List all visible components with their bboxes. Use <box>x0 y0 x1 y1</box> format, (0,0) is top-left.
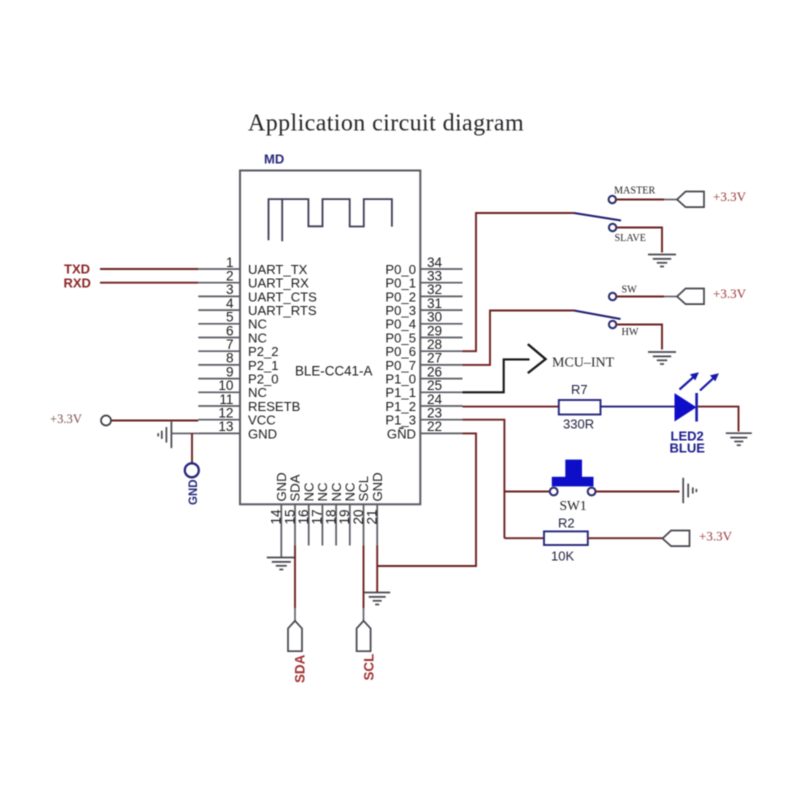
pin 30 P0_4 stub <box>385 310 462 332</box>
wire LED2 to ground <box>698 407 739 432</box>
wire R2 to +3.3V plug <box>588 537 663 539</box>
pin 9 P2_0 stub <box>198 364 278 386</box>
svg-text:SW: SW <box>622 285 638 296</box>
pushbutton SW1 actuator <box>552 460 594 487</box>
connector SDA <box>288 621 302 651</box>
wire SW1 to ground <box>596 491 680 493</box>
pin 24 P1_2 stub <box>385 392 462 414</box>
pin 7 P2_2 stub <box>198 337 278 359</box>
pin 33 P0_1 stub <box>385 269 462 291</box>
svg-text:+3.3V: +3.3V <box>50 412 82 426</box>
pin 2 UART_RX stub <box>198 269 309 291</box>
svg-text:SW1: SW1 <box>560 498 587 513</box>
wire pin 28 to switch common <box>463 213 575 351</box>
pin 11 RESETB stub <box>198 392 300 414</box>
ground (pin 21) <box>364 593 390 605</box>
LED2 diode triangle <box>675 394 696 421</box>
pin 5 NC stub <box>198 310 267 332</box>
pin 1 UART_TX stub <box>198 255 307 277</box>
LED2 emission arrow 2 <box>700 373 719 390</box>
connector +3.3V (MASTER) <box>677 192 704 208</box>
terminal circle GND <box>185 463 199 477</box>
wire RXD to pin 2 <box>100 282 198 284</box>
pin 28 P0_6 stub <box>385 337 462 359</box>
wire pin 24 to R7 <box>463 406 559 408</box>
contact SW1 left <box>550 488 558 496</box>
pin 8 P2_1 stub <box>198 351 278 373</box>
arrowhead MCU-INT <box>528 344 546 373</box>
wire TXD to pin 1 <box>100 268 198 270</box>
pin 19 NC stub <box>337 483 357 546</box>
resistor R2 <box>544 531 588 545</box>
wire pin 22 GND to pin 21 ground <box>377 433 476 566</box>
wire riser to SW1 left contact <box>504 491 549 493</box>
ground (HW) <box>648 352 676 364</box>
pin 14 GND stub <box>269 472 289 545</box>
contact SLAVE <box>609 224 616 231</box>
ground (rotated) on VCC rail <box>158 422 171 449</box>
svg-text:GND: GND <box>188 479 200 505</box>
pin 6 NC stub <box>198 323 267 345</box>
wire R7 to LED2 <box>601 406 676 408</box>
svg-text:330R: 330R <box>563 417 594 432</box>
wire pin 23 riser <box>463 420 505 539</box>
wire HW to ground <box>616 325 662 350</box>
wire pin 25 to MCU-INT <box>463 359 530 392</box>
pin 3 UART_CTS stub <box>198 282 317 304</box>
ground (LED2) <box>726 433 752 445</box>
svg-text:GND: GND <box>248 426 277 441</box>
pin 22 GND stub <box>387 419 463 441</box>
ground (rotated, SW1) <box>683 478 696 503</box>
pin 12 VCC stub <box>198 406 275 428</box>
svg-text:10K: 10K <box>551 549 574 564</box>
pin 16 NC stub <box>296 483 316 546</box>
pin 23 P1_3 stub <box>385 406 462 428</box>
wire +3.3V to VCC pin 12 <box>111 420 198 422</box>
svg-text:TXD: TXD <box>64 262 90 277</box>
wire GND drop <box>191 433 193 463</box>
svg-text:SCL: SCL <box>362 654 377 681</box>
connector +3.3V (R2) <box>663 531 690 547</box>
switch SW-MS lever <box>574 213 621 221</box>
wire MASTER to +3.3V plug <box>616 199 664 201</box>
terminal circle +3.3V left <box>101 416 111 426</box>
pin 17 NC stub <box>310 483 330 546</box>
svg-text:R7: R7 <box>571 382 588 397</box>
pin 29 P0_5 stub <box>385 323 462 345</box>
connector +3.3V (SW) <box>677 289 704 305</box>
pin 4 UART_RTS stub <box>198 296 317 318</box>
svg-text:RXD: RXD <box>64 275 91 290</box>
wire pin 13 GND extension <box>171 432 198 434</box>
svg-text:21: 21 <box>365 509 380 524</box>
contact SW <box>609 293 616 300</box>
pin 31 P0_3 stub <box>385 296 462 318</box>
ground (pin 14) <box>280 546 282 558</box>
svg-text:+3.3V: +3.3V <box>699 529 733 544</box>
svg-text:SLAVE: SLAVE <box>615 233 647 244</box>
wire pin 27 to switch common <box>463 311 575 365</box>
svg-text:MD: MD <box>264 152 284 167</box>
svg-text:+3.3V: +3.3V <box>713 286 747 301</box>
svg-text:BLUE: BLUE <box>670 441 706 456</box>
pin 21 GND stub <box>365 472 385 545</box>
wire SW to +3.3V plug <box>616 296 664 298</box>
wire SDA (pin 15) <box>294 546 296 609</box>
pin 10 NC stub <box>198 378 267 400</box>
svg-text:SDA: SDA <box>293 654 308 683</box>
wire riser to R2 <box>504 537 544 539</box>
wire pin 21 to ground <box>376 546 378 593</box>
contact HW <box>609 321 616 328</box>
pin 15 SDA stub <box>282 474 302 545</box>
LED2 cathode bar <box>695 393 698 422</box>
svg-text:BLE-CC41-A: BLE-CC41-A <box>295 364 372 379</box>
wire SCL (pin 20) <box>363 546 365 609</box>
contact SW1 right <box>588 488 596 496</box>
pin 32 P0_2 stub <box>385 282 462 304</box>
pin 13 GND stub <box>198 419 277 441</box>
antenna meander trace <box>269 199 392 241</box>
pin 26 P1_0 stub <box>385 364 462 386</box>
pin 20 SCL stub <box>351 476 371 545</box>
pin 27 P0_7 stub <box>385 351 462 373</box>
svg-text:HW: HW <box>622 327 639 338</box>
svg-text:R2: R2 <box>558 516 575 531</box>
switch SW-HW lever <box>574 311 621 320</box>
pin 18 NC stub <box>323 483 343 546</box>
ground (SLAVE) <box>648 255 676 267</box>
svg-text:13: 13 <box>218 419 233 434</box>
svg-text:Application circuit diagram: Application circuit diagram <box>248 111 524 137</box>
LED2 emission arrow 1 <box>680 372 699 389</box>
contact MASTER <box>609 196 616 203</box>
svg-text:+3.3V: +3.3V <box>713 189 747 204</box>
svg-text:MASTER: MASTER <box>614 186 656 197</box>
connector SCL <box>357 621 371 651</box>
svg-text:MCU–INT: MCU–INT <box>552 356 615 371</box>
svg-text:22: 22 <box>427 419 442 434</box>
IC U1 BLE-CC41-A body <box>240 171 420 505</box>
svg-text:GND: GND <box>370 472 385 501</box>
pin 34 P0_0 stub <box>385 255 462 277</box>
wire SLAVE to ground <box>616 228 662 253</box>
resistor R7 <box>559 400 601 415</box>
pin 25 P1_1 stub <box>385 378 462 400</box>
